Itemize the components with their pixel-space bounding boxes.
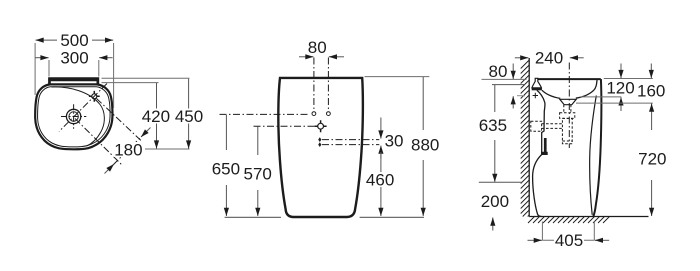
- drain centerline: [568, 63, 570, 149]
- level line 160: [576, 102, 653, 104]
- back edge bar: [48, 77, 99, 85]
- dimension 880: [365, 76, 430, 78]
- wall outlet dashed: [531, 121, 542, 131]
- arrow 120 bottom: [620, 97, 622, 111]
- dimension 635: [494, 85, 496, 182]
- level line 570: [254, 125, 316, 127]
- fixing hole line: [517, 95, 525, 97]
- svg-text:450: 450: [175, 107, 203, 126]
- pedestal outline: [278, 78, 363, 217]
- overflow marks: [318, 137, 321, 142]
- svg-text:80: 80: [489, 62, 508, 81]
- floor line: [529, 216, 648, 218]
- basin outer outline: [35, 84, 112, 149]
- trap flange dashed: [560, 113, 575, 119]
- rim extension right: [604, 78, 653, 80]
- svg-text:420: 420: [142, 107, 170, 126]
- svg-text:240: 240: [535, 49, 563, 68]
- wall line: [528, 58, 530, 217]
- drain symbol: [61, 104, 86, 129]
- centerline through faucet and drain: [59, 84, 107, 132]
- arrow 120 top: [620, 64, 622, 79]
- dimension 570: [257, 127, 259, 216]
- svg-text:200: 200: [481, 192, 509, 211]
- extension line from faucet hole: [97, 99, 143, 142]
- svg-text:635: 635: [479, 116, 507, 135]
- bowl interior: [542, 80, 597, 98]
- svg-text:650: 650: [212, 159, 240, 178]
- dimension 405: [542, 222, 594, 241]
- crosshair symbol: [318, 123, 324, 129]
- mount level line: [492, 84, 525, 86]
- fixing stud: [541, 138, 548, 155]
- front edge outer: [593, 79, 601, 216]
- rim top: [538, 78, 601, 80]
- arrow 180 upper: [141, 128, 151, 138]
- floor line right: [360, 216, 424, 218]
- arrow 180 lower: [105, 164, 115, 174]
- outlet connector dashed: [542, 124, 563, 129]
- dimension line 180 (oblique): [110, 132, 147, 169]
- svg-text:405: 405: [555, 231, 583, 250]
- extension line from drain: [75, 119, 122, 165]
- faucet hole marks: [312, 112, 316, 116]
- svg-text:500: 500: [60, 31, 88, 50]
- dimension 30 arrows: [380, 118, 382, 139]
- trap cap dashed: [562, 140, 572, 142]
- svg-text:300: 300: [60, 49, 88, 68]
- level line 120: [580, 96, 622, 98]
- bowl interior curve: [52, 87, 105, 146]
- overflow level lines 30: [322, 140, 379, 145]
- trap body dashed: [562, 118, 572, 143]
- arrow 160 top: [650, 64, 652, 79]
- label 180: [113, 142, 143, 157]
- mount bracket: [532, 78, 542, 88]
- svg-text:160: 160: [637, 81, 665, 100]
- svg-text:570: 570: [244, 164, 272, 183]
- pedestal back profile: [533, 90, 545, 216]
- svg-text:720: 720: [638, 149, 666, 168]
- svg-text:80: 80: [308, 38, 327, 57]
- dimension 650: [225, 115, 227, 216]
- dimension 460: [380, 152, 382, 216]
- svg-text:460: 460: [366, 171, 394, 190]
- level line 650: [220, 113, 310, 115]
- arrow 200 bottom: [492, 218, 494, 231]
- service level line: [479, 181, 523, 183]
- wall hatching: [521, 60, 530, 217]
- trap tailpipe dashed: [564, 105, 571, 113]
- floor line left: [225, 216, 281, 218]
- dimension 420 450: [102, 77, 190, 79]
- svg-text:880: 880: [411, 135, 439, 154]
- drain flange: [560, 99, 576, 104]
- fixing hole cross: [533, 93, 538, 98]
- faucet hole symbol: [89, 91, 100, 102]
- svg-text:180: 180: [114, 140, 142, 159]
- floor hatching: [528, 217, 610, 224]
- dimension 500: [34, 43, 36, 95]
- svg-text:120: 120: [606, 78, 634, 97]
- faucet hole centerlines: [314, 58, 329, 112]
- dimension 300: [48, 60, 50, 77]
- basin inner rim line: [38, 87, 110, 147]
- svg-text:30: 30: [385, 131, 404, 150]
- rim extension left: [482, 78, 527, 80]
- dimension 720: [651, 104, 653, 131]
- front edge inner: [590, 96, 597, 215]
